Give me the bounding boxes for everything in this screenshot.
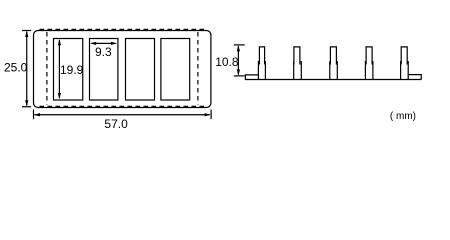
svg-text:25.0: 25.0 — [4, 61, 28, 75]
tick top of 10.8 — [234, 44, 245, 46]
dimension line 25.0 vertical — [26, 32, 28, 106]
arrowheads 19.9 — [58, 39, 61, 45]
pin 5 right foot — [408, 75, 421, 80]
svg-text:19.9: 19.9 — [60, 63, 84, 77]
svg-text:10.8: 10.8 — [215, 55, 239, 69]
tick bottom of 25.0 — [22, 106, 31, 108]
tick left of 57.0 — [33, 110, 35, 120]
tick bottom of 10.8 — [234, 75, 245, 77]
slot 2 — [90, 39, 118, 101]
dashed inner outline top — [40, 28, 205, 30]
dimension line 10.8 vertical — [237, 46, 239, 75]
pin 1 left foot — [245, 75, 258, 80]
pin 2 blade — [294, 47, 300, 65]
svg-text:( mm): ( mm) — [390, 111, 416, 122]
svg-text:57.0: 57.0 — [104, 117, 128, 131]
dashed inner outline left — [46, 32, 48, 105]
tick top of 25.0 — [22, 30, 31, 32]
svg-text:9.3: 9.3 — [95, 45, 112, 59]
slot 3 — [126, 39, 155, 101]
arrowheads 57.0 — [34, 113, 40, 116]
dimension line 19.9 vertical — [58, 40, 60, 98]
arrowheads 25.0 — [25, 31, 28, 37]
side view base rail — [245, 79, 421, 81]
pin 4 blade — [366, 47, 372, 65]
outer body outline (top view) — [34, 31, 211, 108]
arrowheads 9.3 — [90, 42, 96, 45]
tick right of 57.0 — [210, 110, 212, 120]
dashed inner outline bottom — [40, 105, 205, 107]
dimension line 57.0 horizontal — [35, 114, 210, 116]
slot 1 — [54, 39, 83, 101]
pin 5 blade — [401, 47, 407, 65]
pin 1 blade — [259, 47, 264, 65]
arrowheads 10.8 — [237, 45, 240, 51]
dimension line 9.3 horizontal — [92, 42, 116, 44]
pin 3 blade — [330, 47, 336, 65]
dashed inner outline right — [197, 32, 199, 105]
slot 4 — [161, 39, 190, 101]
